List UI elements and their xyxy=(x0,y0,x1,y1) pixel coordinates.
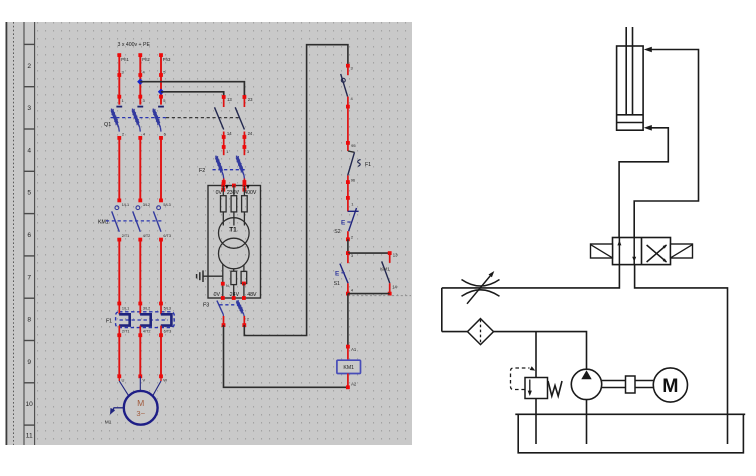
svg-text:1/L1: 1/L1 xyxy=(122,307,129,311)
wire branch to KM1 aux 13 xyxy=(348,252,390,254)
svg-text:E: E xyxy=(341,220,346,227)
svg-text:4: 4 xyxy=(27,147,31,154)
svg-text:U: U xyxy=(122,378,125,383)
wire Q1 aux to F2 (left) xyxy=(222,137,229,155)
ground M1 xyxy=(105,408,124,426)
svg-text:9: 9 xyxy=(27,359,31,366)
pipe valve P-port to throttle xyxy=(442,265,620,288)
wire 0V return to coil A2 xyxy=(222,316,348,387)
fuse switch F3 xyxy=(203,300,250,322)
fuse switch disconnector F2 xyxy=(199,156,246,186)
svg-text:5/L3: 5/L3 xyxy=(164,307,171,311)
svg-text:24: 24 xyxy=(248,131,253,136)
svg-text:14: 14 xyxy=(392,285,397,290)
ground (T1 secondary earth) xyxy=(197,270,223,282)
svg-text:4/T2: 4/T2 xyxy=(143,234,151,238)
svg-text:6/T3: 6/T3 xyxy=(163,234,171,238)
svg-text:14: 14 xyxy=(227,131,232,136)
svg-text:Ph1: Ph1 xyxy=(121,57,129,62)
wires F1 to motor terminals U V W xyxy=(117,335,167,396)
wire S2 to node 3 xyxy=(347,239,349,253)
wire KM1 aux 14 to node 4 xyxy=(348,293,390,295)
wire PH3 tap to Q1 terminal 13 xyxy=(161,92,224,97)
svg-text:6: 6 xyxy=(27,232,31,239)
wire F1 96 to S2 xyxy=(347,186,349,198)
breaker Q1 auxiliary contacts 13-14 and 23-24 xyxy=(215,95,254,139)
svg-text:23: 23 xyxy=(248,97,253,102)
svg-text:M: M xyxy=(137,398,144,408)
pump xyxy=(571,369,601,399)
svg-text:3 x 400v + PE: 3 x 400v + PE xyxy=(118,42,151,48)
svg-text:4/T2: 4/T2 xyxy=(143,329,151,333)
svg-text:2/T1: 2/T1 xyxy=(122,329,130,333)
flow control throttle valve xyxy=(462,271,500,304)
node 3 (S1 / KM1-aux branch) xyxy=(346,251,350,255)
filter xyxy=(442,319,494,345)
pipe cylinder bottom port xyxy=(619,125,668,238)
svg-text:10: 10 xyxy=(26,401,34,408)
Q1 linkage dashed line xyxy=(111,117,167,119)
svg-text:F2: F2 xyxy=(199,168,205,174)
KM1 linkage dashed line xyxy=(106,220,164,222)
svg-text:7: 7 xyxy=(27,274,31,281)
wire phase Ph1 (supply to Q1) xyxy=(117,53,129,104)
wire phase Ph2 (supply to Q1) xyxy=(138,53,150,104)
svg-text:A2: A2 xyxy=(351,381,357,386)
svg-text:3/L2: 3/L2 xyxy=(143,307,150,311)
svg-text:230V: 230V xyxy=(227,190,240,196)
node junction PH3 tap xyxy=(158,89,164,95)
svg-text:0V: 0V xyxy=(214,292,221,298)
svg-text:T1: T1 xyxy=(229,227,237,234)
wire Q1 aux to F2 (right) xyxy=(243,137,250,155)
svg-text:3: 3 xyxy=(27,105,31,112)
pressure relief valve xyxy=(525,332,562,399)
svg-text:5: 5 xyxy=(27,190,31,197)
svg-text:Ph2: Ph2 xyxy=(142,57,150,62)
wires KM1 to F1 xyxy=(117,240,163,306)
svg-text:3~: 3~ xyxy=(136,409,145,418)
svg-text:KM1: KM1 xyxy=(380,267,390,272)
svg-text:400V: 400V xyxy=(244,190,257,196)
svg-text:F1: F1 xyxy=(365,162,371,168)
svg-text:F1: F1 xyxy=(106,319,112,325)
F3 linkage dashed line xyxy=(220,304,241,306)
directional control valve 4/2 xyxy=(613,238,671,265)
wire contact 4 to F1 95 xyxy=(347,107,349,143)
svg-text:Q1: Q1 xyxy=(104,122,111,128)
auxiliary contact KM1 13-14 xyxy=(380,253,397,295)
svg-text:F3: F3 xyxy=(203,302,209,308)
tank (reservoir) xyxy=(515,414,745,453)
svg-text:13: 13 xyxy=(227,97,232,102)
pipe filter to pump xyxy=(494,332,587,370)
svg-text:V: V xyxy=(143,378,146,383)
wire PH2 tap to Q1 terminal 23 xyxy=(140,82,244,97)
thermal overload relay F1 xyxy=(106,304,174,338)
svg-text:2/T1: 2/T1 xyxy=(122,234,130,238)
hydraulic cylinder xyxy=(617,27,644,130)
motor M1 (3~) xyxy=(124,391,158,425)
pushbutton S1 (NO, start) xyxy=(334,253,354,295)
svg-text:S1: S1 xyxy=(334,281,340,287)
relief valve pilot dashed line xyxy=(511,366,536,389)
svg-text:5/L3: 5/L3 xyxy=(163,203,170,207)
svg-text:S2: S2 xyxy=(334,229,340,235)
shaft coupling pump-motor xyxy=(602,376,654,393)
pipe cylinder top port xyxy=(634,47,698,238)
svg-text:0V: 0V xyxy=(216,190,223,196)
svg-text:W: W xyxy=(163,378,167,383)
svg-text:KM1: KM1 xyxy=(343,365,354,371)
wire 48V feed to control rail xyxy=(242,45,348,336)
wire phase Ph3 (supply to Q1) xyxy=(159,53,171,104)
svg-text:13: 13 xyxy=(393,252,398,257)
svg-text:A1: A1 xyxy=(351,347,357,352)
thermal overload contact F1 95-96 xyxy=(346,141,371,186)
interruption dashed line xyxy=(348,295,411,297)
svg-text:48V: 48V xyxy=(247,292,257,298)
transformer T1 (box with primary/secondary fuses) xyxy=(208,184,261,300)
svg-text:11: 11 xyxy=(26,433,33,440)
svg-text:6/T3: 6/T3 xyxy=(164,329,172,333)
coil KM1 (contactor coil A1-A2) xyxy=(337,345,361,389)
svg-text:95: 95 xyxy=(351,143,356,148)
pipe relief valve drain to tank xyxy=(535,399,537,445)
node junction PH2 tap xyxy=(137,79,143,85)
svg-text:3/L2: 3/L2 xyxy=(143,203,150,207)
solenoid right xyxy=(671,244,693,258)
svg-text:Ph3: Ph3 xyxy=(163,57,171,62)
solenoid left xyxy=(591,244,613,258)
svg-text:N: N xyxy=(226,284,229,288)
F2 linkage dashed line xyxy=(213,169,247,171)
electric motor M xyxy=(653,368,687,402)
auxiliary contact Q1 3-4 (control chain) xyxy=(341,64,354,109)
svg-text:M: M xyxy=(662,375,678,397)
svg-text:M1: M1 xyxy=(105,419,112,425)
contactor KM1 main contacts xyxy=(98,138,171,242)
svg-text:1/L1: 1/L1 xyxy=(122,203,129,207)
pipe pump suction to tank xyxy=(586,400,588,444)
svg-text:24V: 24V xyxy=(230,292,240,298)
circuit breaker Q1 (3 main poles) xyxy=(104,107,167,140)
pushbutton S2 (NC, E-stop) xyxy=(334,196,358,241)
pipe throttle down to filter xyxy=(441,288,443,332)
svg-text:E: E xyxy=(335,270,340,277)
svg-text:96: 96 xyxy=(351,177,356,182)
svg-text:8: 8 xyxy=(27,317,31,324)
wire node 4 to coil A1 xyxy=(347,294,349,347)
svg-text:2: 2 xyxy=(27,63,31,70)
pipe valve T-port return to tank xyxy=(635,265,728,444)
